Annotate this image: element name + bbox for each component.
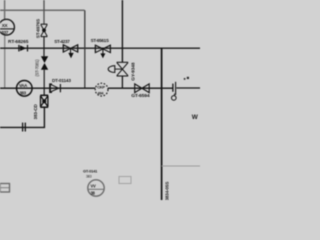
- wire: x=44 down to main line: [43, 70, 45, 89]
- svg-text:383: 383: [19, 90, 26, 95]
- wire: x=122.4 down to main line: [121, 76, 123, 88]
- check valve RT-68265 (solid triangle between bars): [19, 45, 28, 52]
- main line (middle span): [108, 87, 173, 89]
- svg-text:ST-4237: ST-4237: [54, 39, 70, 44]
- wire: faint horizontal line y=166 right section: [162, 165, 200, 167]
- wire: x=44 between valves: [43, 37, 45, 57]
- svg-text:W: W: [192, 114, 199, 121]
- svg-text:ST-6976S: ST-6976S: [35, 19, 40, 38]
- svg-text:CKP: CKP: [97, 85, 105, 90]
- svg-text:383: 383: [86, 175, 92, 179]
- actuator half-disc: [108, 66, 115, 73]
- control valve GY-9348 (vertical hourglass with actuator): [108, 62, 128, 76]
- flange pair / spec break on main line with drain circle: [172, 77, 190, 100]
- svg-text:3834-05S: 3834-05S: [164, 182, 169, 200]
- flange pair on drain line: [23, 123, 26, 132]
- wire: top-left horizontal gray header line: [0, 9, 85, 11]
- wire: vertical line x=84.6 corner drop from header to y=48: [84, 10, 86, 88]
- svg-text:GY-9348: GY-9348: [131, 62, 137, 81]
- svg-text:(ST-7081): (ST-7081): [34, 59, 39, 77]
- ghost small tag: [119, 177, 131, 184]
- svg-text:RT-68265: RT-68265: [8, 39, 29, 45]
- svg-text:337: 337: [1, 30, 9, 35]
- valve ST-6561S (bowtie with end bars and solid drop below): [95, 45, 110, 58]
- instrument bubble CKP 494 (dashed): [95, 83, 108, 96]
- svg-text:GT-0141: GT-0141: [83, 169, 98, 174]
- wire: gray vertical stub x=4.6 from top to instrument bubble: [4, 0, 6, 20]
- valve (drain, bar-bowtie-bar with ball) below main line: [40, 95, 48, 107]
- ghost instrument bubble: [88, 180, 104, 196]
- svg-text:383-CD: 383-CD: [33, 103, 38, 119]
- svg-text:VAA: VAA: [19, 83, 28, 88]
- svg-text:VV: VV: [91, 184, 96, 189]
- instrument bubble TI 337 (top-left, clipped by edge): [0, 19, 14, 35]
- wire: gray vertical stub from bubble bottom to line y=48: [4, 35, 6, 88]
- valve (solid hourglass) on x=44: [41, 56, 48, 69]
- ghost box at left edge: [0, 184, 10, 193]
- wire: drain line down and left to edge: [0, 107, 44, 128]
- wire: vertical line x=44 from top edge: [43, 0, 45, 24]
- wire: vertical line x=161.6 from y=48 to bottom: [161, 48, 163, 200]
- svg-text:ST-6561S: ST-6561S: [91, 38, 109, 43]
- valve ST-6976S (vertical, bar-bowtie-bar with solid ball): [41, 24, 48, 36]
- wire: vertical line x=122.4 from top edge to control valve: [121, 0, 123, 62]
- valve GT-6594 (open bowtie on main line): [135, 84, 150, 93]
- ghost remnants (ambiguous faded scan elements, drawn mid-gray): [0, 169, 131, 197]
- wire: long horizontal line y=48 full width: [0, 47, 200, 49]
- main line (right span): [176, 87, 200, 89]
- main line (left span): [0, 87, 95, 89]
- instrument bubble VAA 383: [17, 81, 33, 97]
- svg-text:GT-6594: GT-6594: [131, 93, 150, 99]
- check valve DT-01143 (open triangle with bracket and bar): [50, 84, 61, 93]
- wire: branch from main line down to drain valve: [43, 88, 45, 96]
- svg-text:DT-01143: DT-01143: [52, 78, 71, 83]
- valve ST-4237 (bowtie with end bars and solid drop below): [63, 45, 77, 59]
